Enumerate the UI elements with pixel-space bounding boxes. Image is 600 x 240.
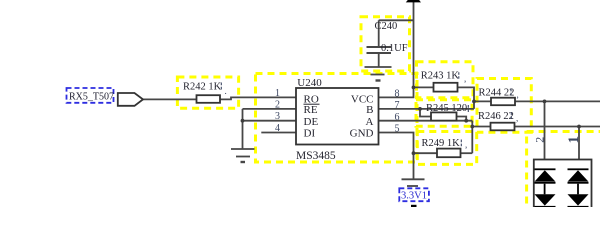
- svg-text:,: ,: [516, 113, 518, 123]
- svg-text:3.3V1: 3.3V1: [401, 191, 427, 202]
- svg-text:U240: U240: [297, 77, 322, 89]
- svg-text:R243 1K: R243 1K: [421, 71, 460, 82]
- svg-text:DI: DI: [304, 128, 316, 140]
- svg-text:1: 1: [275, 88, 280, 99]
- svg-text:,: ,: [464, 74, 466, 84]
- svg-text:DE: DE: [304, 116, 319, 128]
- svg-text:0.1UF: 0.1UF: [381, 43, 408, 54]
- svg-text:R242 1K: R242 1K: [183, 82, 222, 93]
- svg-text:RE: RE: [304, 104, 318, 116]
- svg-text:R244 22: R244 22: [479, 87, 515, 98]
- svg-text:RX5_T507: RX5_T507: [69, 91, 114, 102]
- svg-text:R245 120: R245 120: [426, 103, 467, 114]
- svg-text:,: ,: [465, 140, 467, 150]
- svg-text:5: 5: [395, 124, 400, 135]
- svg-text:C240: C240: [375, 21, 398, 32]
- svg-text:A: A: [366, 116, 374, 128]
- svg-text:R249 1K: R249 1K: [422, 138, 461, 149]
- svg-text:B: B: [366, 104, 373, 116]
- svg-text:8: 8: [395, 88, 400, 99]
- svg-text:7: 7: [395, 100, 400, 111]
- svg-text:3: 3: [275, 111, 280, 122]
- svg-text:4: 4: [275, 123, 280, 134]
- svg-text:,: ,: [517, 90, 519, 100]
- svg-text:R246 22: R246 22: [478, 111, 514, 122]
- svg-text:2: 2: [275, 99, 280, 110]
- svg-text:1: 1: [566, 136, 582, 144]
- svg-text:MS3485: MS3485: [296, 150, 336, 162]
- svg-text:.: .: [225, 86, 227, 96]
- svg-text:6: 6: [395, 112, 400, 123]
- svg-text:GND: GND: [350, 128, 374, 140]
- svg-text:2: 2: [533, 137, 547, 143]
